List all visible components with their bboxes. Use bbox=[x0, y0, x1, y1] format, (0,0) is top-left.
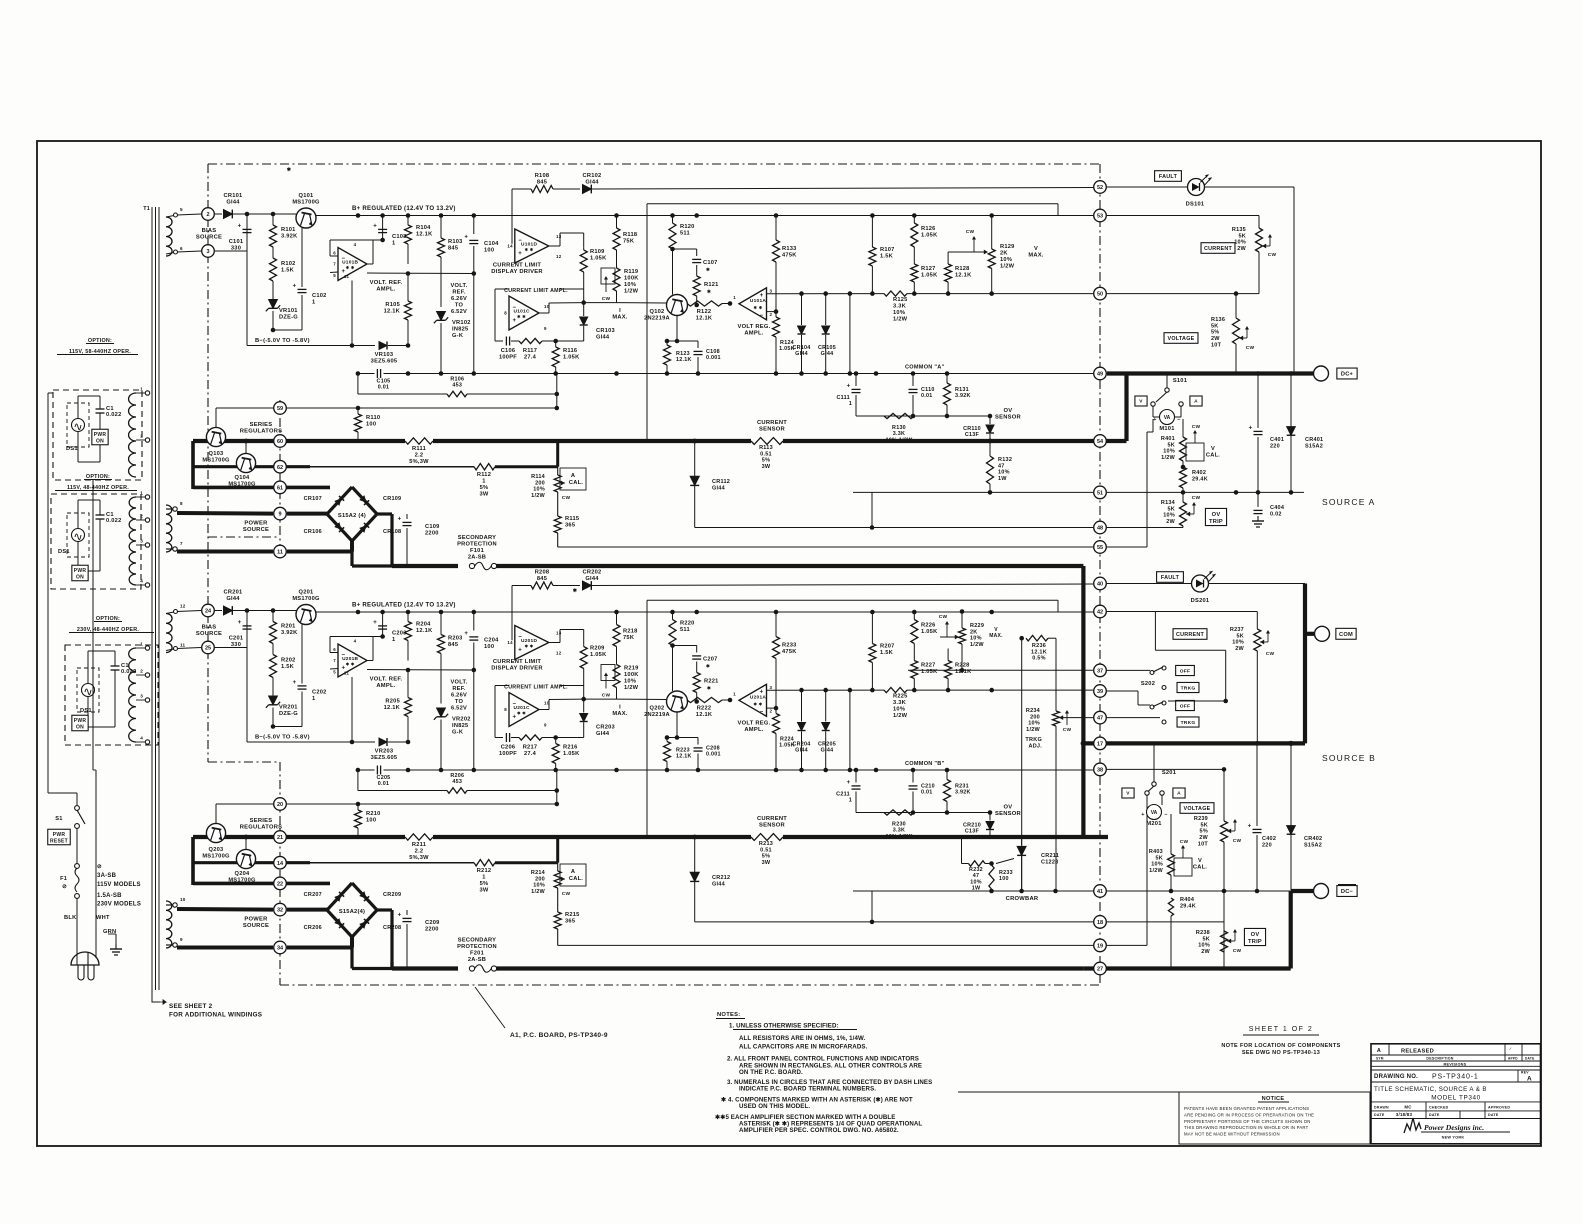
svg-text:0.001: 0.001 bbox=[706, 355, 721, 361]
svg-text:REF.: REF. bbox=[452, 290, 465, 296]
svg-text:C204: C204 bbox=[484, 638, 499, 644]
svg-text:U201A: U201A bbox=[750, 695, 766, 701]
svg-text:A: A bbox=[1377, 1048, 1381, 1054]
svg-text:2K: 2K bbox=[970, 629, 978, 635]
svg-text:+: + bbox=[238, 620, 242, 626]
svg-text:FAULT: FAULT bbox=[1161, 575, 1180, 581]
svg-text:9: 9 bbox=[544, 723, 547, 728]
svg-text:VR102: VR102 bbox=[452, 320, 471, 326]
svg-text:R239: R239 bbox=[1194, 816, 1208, 822]
svg-text:CR212: CR212 bbox=[712, 875, 730, 881]
svg-text:R112: R112 bbox=[477, 472, 491, 478]
diode CR112 bbox=[694, 441, 696, 476]
svg-text:BIAS: BIAS bbox=[202, 625, 217, 631]
svg-text:R210: R210 bbox=[366, 811, 381, 817]
PWR ON box bbox=[92, 429, 108, 445]
svg-text:25: 25 bbox=[205, 646, 211, 652]
svg-text:Q104: Q104 bbox=[235, 475, 251, 481]
transistor Q102 bbox=[667, 295, 688, 316]
svg-text:R227: R227 bbox=[921, 663, 936, 669]
svg-text:3A-SB: 3A-SB bbox=[97, 873, 117, 879]
svg-text:CW: CW bbox=[1192, 424, 1201, 430]
svg-text:AMPL.: AMPL. bbox=[376, 287, 395, 293]
capacitor C211 bbox=[855, 770, 857, 783]
svg-text:VOLT REG.: VOLT REG. bbox=[737, 721, 770, 727]
FAULT box A bbox=[1155, 171, 1182, 182]
terminal 55 bbox=[1094, 541, 1107, 554]
capacitor C101 bbox=[246, 214, 248, 251]
resistor R116 bbox=[553, 339, 558, 344]
wire S202 common bbox=[1154, 612, 1156, 651]
terminal 3 bbox=[202, 641, 215, 654]
svg-text:SEE DWG NO PS-TP340-13: SEE DWG NO PS-TP340-13 bbox=[1242, 1050, 1320, 1056]
svg-text:2N2219A: 2N2219A bbox=[644, 712, 670, 718]
svg-text:CAL.: CAL. bbox=[569, 480, 583, 486]
svg-text:52: 52 bbox=[1097, 185, 1103, 191]
svg-text:DRAWN: DRAWN bbox=[1374, 1105, 1389, 1109]
svg-text:32: 32 bbox=[277, 908, 283, 914]
svg-text:27: 27 bbox=[1097, 967, 1103, 973]
svg-text:✱ ✱: ✱ ✱ bbox=[525, 247, 534, 252]
svg-text:R237: R237 bbox=[1230, 627, 1244, 633]
wire current limit loop bbox=[494, 686, 496, 738]
svg-text:0.01: 0.01 bbox=[378, 385, 390, 391]
terminal 51 bbox=[1094, 486, 1107, 499]
svg-text:1W: 1W bbox=[998, 476, 1007, 482]
terminal 54 bbox=[1094, 435, 1107, 448]
svg-text:0.51: 0.51 bbox=[760, 451, 772, 457]
svg-text:F201: F201 bbox=[470, 951, 484, 957]
svg-text:CW: CW bbox=[1180, 839, 1189, 845]
svg-text:10%: 10% bbox=[1232, 640, 1244, 646]
resistor R106 bbox=[357, 374, 359, 395]
wire main bus bbox=[193, 835, 405, 839]
wire 55 line bbox=[558, 546, 1093, 548]
wire U101C out bbox=[539, 312, 549, 314]
diode CR203 bbox=[583, 699, 585, 712]
terminal DC+ bbox=[1314, 366, 1329, 381]
svg-text:2A-SB: 2A-SB bbox=[468, 555, 486, 561]
svg-text:1.05K: 1.05K bbox=[590, 652, 607, 658]
svg-text:CW: CW bbox=[966, 229, 975, 235]
svg-text:VR101: VR101 bbox=[279, 308, 298, 314]
svg-text:C110: C110 bbox=[921, 387, 935, 393]
resistor R201 bbox=[272, 611, 274, 622]
wire common rail bbox=[358, 373, 1093, 375]
svg-text:Q201: Q201 bbox=[299, 590, 314, 596]
svg-text:3EZ5.605: 3EZ5.605 bbox=[371, 359, 398, 365]
svg-text:S1: S1 bbox=[55, 816, 62, 822]
resistor R110 bbox=[357, 408, 359, 414]
svg-text:48: 48 bbox=[1097, 526, 1103, 532]
svg-text:1/2W: 1/2W bbox=[893, 317, 908, 323]
svg-text:SOURCE: SOURCE bbox=[243, 923, 269, 929]
svg-text:1: 1 bbox=[849, 401, 852, 407]
svg-text:V: V bbox=[1211, 446, 1215, 452]
resistor R209 bbox=[583, 644, 585, 646]
logo Power Designs bbox=[1404, 1118, 1421, 1133]
svg-text:DATE: DATE bbox=[1488, 1113, 1499, 1117]
svg-text:DESCRIPTION: DESCRIPTION bbox=[1426, 1057, 1453, 1061]
svg-text:R131: R131 bbox=[955, 387, 969, 393]
svg-text:14: 14 bbox=[277, 861, 284, 867]
svg-text:SENSOR: SENSOR bbox=[759, 427, 786, 433]
terminal COM bbox=[1315, 626, 1330, 641]
svg-text:✱ ✱: ✱ ✱ bbox=[346, 662, 355, 667]
svg-text:5%: 5% bbox=[1200, 829, 1208, 835]
svg-text:CROWBAR: CROWBAR bbox=[1006, 896, 1039, 902]
svg-text:47: 47 bbox=[973, 873, 980, 879]
pot R238 bbox=[1221, 931, 1228, 952]
wire secondary bottom bus right bbox=[496, 966, 1083, 970]
terminal 61 bbox=[193, 486, 330, 490]
svg-text:VR203: VR203 bbox=[375, 749, 394, 755]
capacitor C202 bbox=[301, 625, 303, 684]
svg-text:R136: R136 bbox=[1211, 317, 1225, 323]
svg-text:CW: CW bbox=[939, 614, 948, 620]
svg-text:22: 22 bbox=[277, 882, 283, 888]
svg-text:55: 55 bbox=[1097, 545, 1103, 551]
svg-text:R111: R111 bbox=[412, 446, 426, 452]
wire 40 to LED bbox=[1107, 583, 1192, 585]
svg-text:DS1: DS1 bbox=[80, 708, 92, 714]
lamp wiring bbox=[77, 500, 79, 529]
V A boxes B bbox=[1122, 788, 1134, 798]
svg-text:DS201: DS201 bbox=[1191, 598, 1210, 604]
terminal 17 bbox=[1094, 737, 1107, 750]
svg-text:12.1K: 12.1K bbox=[696, 316, 713, 322]
svg-text:+: + bbox=[293, 680, 297, 686]
svg-text:BLK: BLK bbox=[64, 915, 77, 921]
svg-text:115V MODELS: 115V MODELS bbox=[97, 882, 141, 888]
svg-text:C104: C104 bbox=[484, 241, 499, 247]
svg-text:AMPL.: AMPL. bbox=[744, 727, 763, 733]
pot R135 current bbox=[1258, 216, 1260, 229]
pot R119 bbox=[613, 268, 620, 291]
svg-text:3.3K: 3.3K bbox=[893, 828, 905, 834]
transformer T1 core bbox=[152, 207, 159, 990]
svg-text:DS1: DS1 bbox=[58, 549, 70, 555]
svg-text:CW: CW bbox=[1063, 727, 1072, 733]
svg-text:6: 6 bbox=[333, 250, 336, 255]
op-amp U101D bbox=[515, 229, 549, 263]
svg-text:39: 39 bbox=[1097, 689, 1103, 695]
svg-text:GI44: GI44 bbox=[585, 180, 599, 186]
svg-text:2W: 2W bbox=[1237, 246, 1246, 252]
terminal 59 bbox=[274, 402, 287, 415]
A1 PC board callout bbox=[475, 987, 505, 1028]
resistor R104 bbox=[407, 216, 409, 226]
svg-text:1/2W: 1/2W bbox=[893, 713, 908, 719]
svg-text:CW: CW bbox=[1268, 252, 1277, 258]
svg-text:10T: 10T bbox=[1198, 841, 1209, 847]
svg-text:VOLT. REF.: VOLT. REF. bbox=[370, 677, 403, 683]
resistor R127 bbox=[911, 264, 918, 282]
svg-text:1.5K: 1.5K bbox=[281, 268, 295, 274]
svg-text:12.1K: 12.1K bbox=[676, 357, 692, 363]
svg-text:R222: R222 bbox=[697, 706, 712, 712]
svg-text:R125: R125 bbox=[893, 297, 908, 303]
diode CR201 bbox=[215, 610, 222, 612]
svg-text:ON: ON bbox=[96, 439, 104, 445]
svg-text:47: 47 bbox=[998, 463, 1005, 469]
svg-text:1: 1 bbox=[733, 692, 736, 697]
svg-text:VOLT. REF.: VOLT. REF. bbox=[370, 280, 403, 286]
terminal 41 bbox=[1094, 885, 1107, 898]
svg-text:24: 24 bbox=[205, 609, 212, 615]
svg-text:ON: ON bbox=[76, 725, 84, 731]
svg-text:WHT: WHT bbox=[96, 915, 110, 921]
resistor R208 bbox=[531, 582, 553, 589]
svg-text:GI44: GI44 bbox=[596, 731, 610, 737]
svg-text:T1: T1 bbox=[143, 206, 150, 212]
svg-text:G-K: G-K bbox=[452, 730, 464, 736]
zener VR201 bbox=[269, 696, 278, 705]
svg-text:PWR: PWR bbox=[94, 432, 107, 438]
wire 42 line right bbox=[1107, 611, 1257, 613]
svg-text:ON: ON bbox=[76, 575, 84, 581]
resistor R109 bbox=[583, 248, 585, 250]
svg-text:10%: 10% bbox=[1000, 257, 1012, 263]
svg-text:0.5%: 0.5% bbox=[1032, 656, 1046, 662]
wire 59 line bbox=[287, 407, 358, 409]
svg-text:4: 4 bbox=[354, 242, 357, 247]
svg-text:OFF: OFF bbox=[1180, 668, 1191, 674]
svg-text:0.01: 0.01 bbox=[921, 393, 933, 399]
capacitor C108 bbox=[697, 341, 699, 348]
svg-text:DC−: DC− bbox=[1341, 889, 1354, 895]
svg-text:3EZ5.605: 3EZ5.605 bbox=[371, 755, 398, 761]
svg-text:R115: R115 bbox=[565, 516, 579, 522]
terminal 2 bbox=[202, 604, 215, 617]
svg-text:MODEL TP340: MODEL TP340 bbox=[1431, 1095, 1481, 1102]
svg-text:SOURCE: SOURCE bbox=[243, 527, 269, 533]
resistor R218 bbox=[616, 612, 618, 625]
svg-text:100K: 100K bbox=[624, 672, 639, 678]
diode CR402 bbox=[1290, 743, 1292, 826]
svg-text:PWR: PWR bbox=[74, 718, 87, 724]
svg-text:9: 9 bbox=[180, 937, 183, 942]
op-amp U201A points left bbox=[739, 684, 767, 716]
diode CR401 bbox=[1290, 374, 1292, 428]
wire 55 line right bbox=[1107, 546, 1147, 548]
wire R236 column lower bbox=[1055, 726, 1057, 891]
svg-text:5%: 5% bbox=[1211, 330, 1219, 336]
terminal 61 bbox=[193, 882, 330, 886]
wire 48 line right bbox=[1107, 527, 1183, 529]
svg-text:51: 51 bbox=[1097, 491, 1103, 497]
fuse F201 bbox=[469, 966, 474, 971]
transistor Q104 bbox=[236, 453, 255, 472]
svg-text:1.5K: 1.5K bbox=[880, 650, 894, 656]
svg-text:2: 2 bbox=[140, 434, 143, 439]
terminal 19 bbox=[1094, 939, 1107, 952]
svg-text:PWR: PWR bbox=[53, 832, 66, 838]
svg-text:GI44: GI44 bbox=[596, 335, 610, 341]
svg-text:CR109: CR109 bbox=[383, 496, 401, 502]
svg-text:5K: 5K bbox=[1167, 442, 1175, 448]
pot R134 bbox=[1182, 493, 1184, 502]
svg-text:FAULT: FAULT bbox=[1159, 174, 1178, 180]
svg-text:1: 1 bbox=[392, 637, 395, 643]
option dashed box bbox=[51, 494, 141, 589]
svg-text:Q103: Q103 bbox=[209, 451, 224, 457]
svg-text:3/18/83: 3/18/83 bbox=[1396, 1112, 1413, 1117]
diode CR204 bbox=[801, 690, 803, 721]
svg-text:3.92K: 3.92K bbox=[281, 234, 298, 240]
resistor R112 bbox=[474, 464, 495, 470]
svg-text:+: + bbox=[513, 318, 517, 324]
wire bias top bbox=[177, 611, 201, 612]
svg-text:5K: 5K bbox=[1238, 233, 1246, 239]
svg-text:COM: COM bbox=[1339, 632, 1353, 638]
svg-text:12.1K: 12.1K bbox=[696, 712, 713, 718]
svg-text:VR202: VR202 bbox=[452, 717, 471, 723]
svg-text:V: V bbox=[1034, 246, 1038, 252]
svg-text:VR201: VR201 bbox=[279, 705, 298, 711]
svg-text:0.02: 0.02 bbox=[1270, 511, 1282, 517]
svg-text:C401: C401 bbox=[1270, 437, 1284, 443]
svg-text:1: 1 bbox=[733, 295, 736, 300]
diode CR102 bbox=[553, 188, 580, 190]
svg-text:I: I bbox=[619, 705, 621, 711]
resistor R130 bbox=[884, 413, 914, 418]
diode CR210 bbox=[989, 813, 991, 821]
resistor R212 bbox=[474, 860, 495, 866]
lamp DS1 bbox=[77, 668, 99, 712]
pot R229 tracking bbox=[961, 612, 963, 629]
capacitor C206 resistor R217 bbox=[495, 737, 503, 739]
svg-text:CR205: CR205 bbox=[818, 742, 836, 748]
svg-text:MAY NOT BE MADE WITHOUT PERMIS: MAY NOT BE MADE WITHOUT PERMISSION bbox=[1184, 1132, 1280, 1137]
capacitor C204 bbox=[473, 612, 475, 631]
svg-text:CW: CW bbox=[1192, 495, 1201, 501]
svg-text:10%: 10% bbox=[624, 679, 636, 685]
wire Q102 emitter bbox=[676, 712, 678, 738]
svg-text:C13F: C13F bbox=[965, 829, 980, 835]
resistor R202 bbox=[270, 655, 277, 678]
wire U101D out bbox=[549, 245, 560, 247]
svg-text:10%: 10% bbox=[998, 470, 1010, 476]
svg-text:3W: 3W bbox=[479, 888, 488, 894]
svg-text:1: 1 bbox=[312, 696, 315, 702]
wire opamp B inputs bbox=[330, 255, 338, 257]
svg-text:511: 511 bbox=[680, 627, 690, 633]
svg-text:✱: ✱ bbox=[706, 664, 710, 669]
wire sense line upper bbox=[647, 599, 1058, 601]
svg-text:1.5K: 1.5K bbox=[281, 664, 295, 670]
svg-text:1.5A-SB: 1.5A-SB bbox=[97, 893, 122, 899]
svg-text:DRAWING NO.: DRAWING NO. bbox=[1374, 1074, 1418, 1080]
svg-text:2200: 2200 bbox=[425, 927, 439, 933]
svg-text:12.1K: 12.1K bbox=[416, 232, 433, 238]
svg-text:5%: 5% bbox=[480, 881, 489, 887]
resistor R123 bbox=[666, 341, 668, 345]
junction dots bias bbox=[245, 608, 250, 613]
svg-text:845: 845 bbox=[448, 642, 458, 648]
svg-text:+: + bbox=[847, 384, 851, 390]
svg-text:27.4: 27.4 bbox=[524, 751, 537, 757]
svg-text:10%: 10% bbox=[1234, 240, 1246, 246]
svg-text:10%: 10% bbox=[1163, 449, 1175, 455]
CURRENT box B bbox=[1173, 629, 1207, 640]
svg-text:11: 11 bbox=[277, 550, 283, 556]
svg-text:DATE: DATE bbox=[1374, 1113, 1385, 1117]
svg-text:365: 365 bbox=[565, 523, 575, 529]
resistor R220 bbox=[672, 612, 674, 620]
ground bbox=[108, 933, 116, 935]
svg-text:11: 11 bbox=[180, 643, 186, 648]
svg-text:CAL.: CAL. bbox=[569, 876, 583, 882]
fuse F1 bbox=[75, 864, 80, 869]
wire Q102 base bbox=[617, 302, 667, 304]
capacitor C207 bbox=[673, 645, 697, 647]
wire secondary COM vertical thick bbox=[1081, 566, 1085, 837]
mains wiring right rail bbox=[92, 480, 94, 770]
op-amp U101B bbox=[338, 248, 367, 281]
winding bias T1-A bbox=[166, 217, 172, 256]
svg-text:R221: R221 bbox=[704, 679, 719, 685]
svg-text:SECONDARY: SECONDARY bbox=[458, 535, 496, 541]
svg-text:10%: 10% bbox=[533, 487, 545, 493]
svg-text:3: 3 bbox=[770, 685, 773, 690]
svg-text:TRKG: TRKG bbox=[1025, 737, 1042, 743]
svg-text:40: 40 bbox=[1097, 582, 1103, 588]
svg-text:OV: OV bbox=[1004, 805, 1013, 811]
svg-text:R217: R217 bbox=[523, 745, 538, 751]
LED DS101 bbox=[1188, 179, 1205, 196]
svg-text:OFF: OFF bbox=[1180, 703, 1191, 709]
svg-text:C105: C105 bbox=[377, 379, 391, 385]
switch S1 bbox=[75, 806, 80, 811]
capacitor C203 bbox=[382, 612, 384, 637]
svg-text:1/2W: 1/2W bbox=[970, 642, 984, 648]
svg-text:M101: M101 bbox=[1159, 426, 1174, 432]
svg-text:R204: R204 bbox=[416, 622, 431, 628]
svg-text:27.4: 27.4 bbox=[524, 355, 537, 361]
svg-text:SOURCE A: SOURCE A bbox=[1322, 497, 1376, 507]
svg-text:GI44: GI44 bbox=[795, 748, 808, 754]
svg-text:0.51: 0.51 bbox=[760, 847, 772, 853]
svg-text:3: 3 bbox=[206, 249, 209, 255]
svg-text:SOURCE: SOURCE bbox=[196, 235, 222, 241]
svg-text:2W: 2W bbox=[1201, 949, 1210, 955]
wire pin5 line bbox=[367, 669, 474, 672]
svg-text:MC: MC bbox=[1404, 1104, 1412, 1109]
svg-text:10%: 10% bbox=[1198, 943, 1210, 949]
svg-text:10%: 10% bbox=[533, 883, 545, 889]
svg-text:✱ ✱: ✱ ✱ bbox=[754, 305, 763, 310]
resistor R205 bbox=[407, 670, 409, 698]
svg-text:6.52V: 6.52V bbox=[451, 309, 467, 315]
capacitor C110 bbox=[912, 374, 914, 387]
svg-text:230V MODELS: 230V MODELS bbox=[97, 902, 141, 908]
svg-text:A: A bbox=[1194, 399, 1198, 405]
wire bus tap bbox=[556, 837, 559, 863]
svg-text:TRIP: TRIP bbox=[1209, 519, 1223, 525]
svg-text:100: 100 bbox=[366, 422, 376, 428]
svg-text:✱: ✱ bbox=[706, 267, 710, 272]
svg-text:INDICATE P.C. BOARD TERMINAL N: INDICATE P.C. BOARD TERMINAL NUMBERS. bbox=[739, 1086, 876, 1093]
svg-text:REV: REV bbox=[1521, 1071, 1529, 1075]
capacitor C208 bbox=[697, 738, 699, 745]
transistor Q103 bbox=[206, 427, 225, 446]
wire 37 switch bbox=[1107, 669, 1150, 671]
svg-text:CURRENT: CURRENT bbox=[757, 816, 787, 822]
svg-text:G-K: G-K bbox=[452, 333, 464, 339]
svg-text:R215: R215 bbox=[565, 912, 580, 918]
svg-text:2.2: 2.2 bbox=[415, 849, 424, 855]
